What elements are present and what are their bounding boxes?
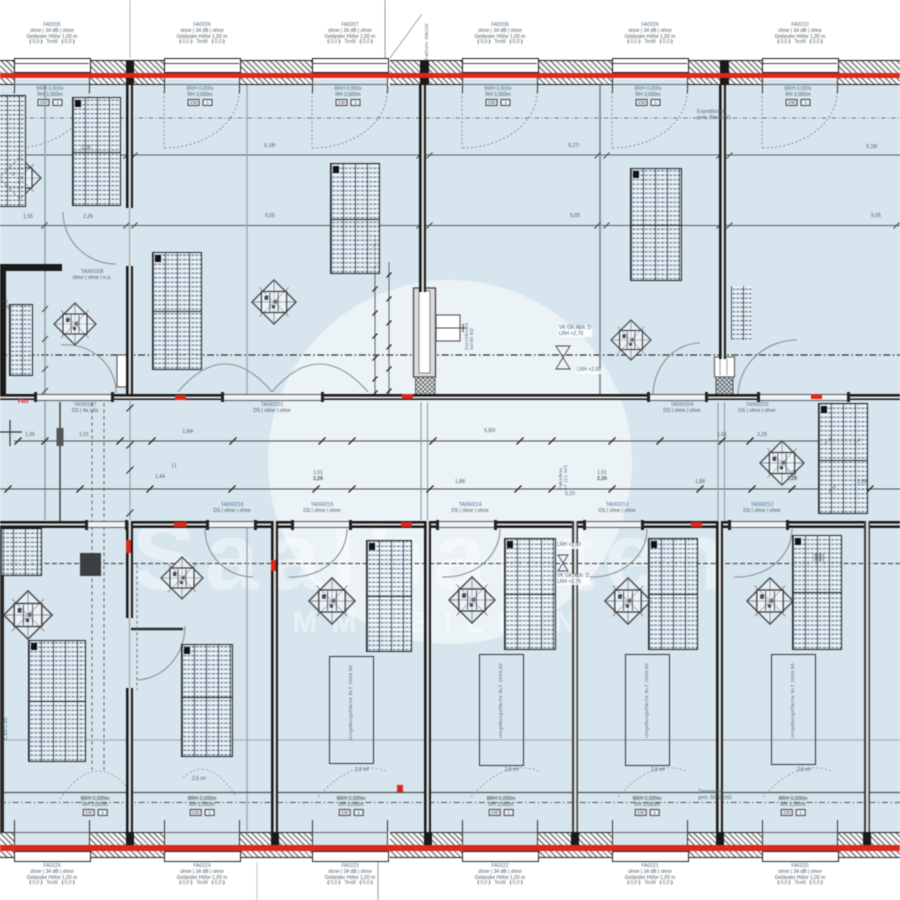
label box room4 (625, 654, 670, 766)
watermark circle (268, 280, 632, 644)
window label FA0208 (475, 23, 526, 46)
area label room5 (797, 768, 811, 774)
wall x130 bottom upper (126, 521, 133, 618)
dim label 5,05 room D (871, 214, 881, 220)
wall x867 bottom (864, 521, 871, 832)
balcony door arc room0 (60, 771, 130, 799)
window label FA0223 (325, 864, 376, 887)
data table left edge room A (0, 95, 26, 207)
top exterior wall hatch segments (0, 60, 14, 85)
door arc room A to corridor (61, 345, 116, 393)
door arc between room A and B (63, 212, 116, 264)
area label room4 (651, 768, 665, 774)
wall x720 bottom (716, 521, 723, 832)
bottom red stripe (0, 845, 900, 851)
data table room0 small upper (0, 528, 42, 576)
pair mark corridor (172, 464, 176, 470)
top window blue reveals (15, 79, 90, 85)
shaft at wall x420 (414, 288, 436, 396)
room text under FA0209 (635, 87, 662, 106)
red mark wall428 bottom vertical (397, 785, 403, 792)
red mark corridor lower wall right (691, 522, 702, 527)
diamond symbol room2 bottom (309, 578, 355, 624)
door tag TA060208 room A (73, 270, 112, 282)
door tag TA060207 (72, 403, 98, 415)
door niche stub room1 (131, 628, 183, 630)
diamond symbol room A lower (54, 303, 96, 345)
note bottom right of wall720 (698, 790, 732, 801)
diamond symbol room A upper (0, 157, 41, 199)
bottom window jamb lines (14, 820, 16, 845)
ceiling note room C lower (576, 368, 602, 374)
red mark wall275 vertical (271, 560, 276, 571)
bottom window blue reveals (15, 833, 90, 845)
data table room4 upper right (648, 538, 698, 650)
rotated note room C left (464, 286, 474, 350)
door tag TA060215 (303, 503, 340, 515)
ceiling note room C (558, 326, 592, 337)
wall box fixture room A left (117, 355, 130, 387)
dim label 5,18 room B (264, 144, 275, 150)
door arc room C to corridor (653, 343, 700, 396)
door arc bottom room1 (205, 529, 253, 577)
corridor left partition x60 (59, 402, 61, 521)
data table room C (630, 168, 682, 281)
diamond symbol room B (252, 280, 296, 324)
note top right (697, 110, 731, 121)
balcony text room0 (81, 797, 110, 816)
room text under FA0208 (485, 87, 512, 106)
dim line y155 (0, 154, 900, 156)
red label FB0 (18, 399, 28, 405)
diamond symbol corridor (760, 441, 804, 485)
door arc bottom room2 (289, 529, 347, 577)
dash-dot line upper rooms (0, 117, 900, 119)
label box room5 (771, 654, 816, 765)
balcony text room4 (633, 797, 662, 816)
top wall end marks (126, 61, 134, 85)
wall x575 bottom (572, 521, 579, 832)
hourglass symbol bottom corridor area (558, 555, 568, 571)
diamond symbol room3 bottom (449, 577, 495, 623)
red mark wall130 vertical (126, 540, 131, 553)
door tag TA060201 (253, 403, 290, 415)
paketbox rotated label (558, 432, 568, 490)
diamond symbol room1 bottom (161, 557, 203, 599)
label box room3 (479, 654, 524, 766)
top window boxes (14, 58, 91, 73)
interior wall room A horizontal (0, 264, 62, 271)
bottom rooms sill line y792 (0, 792, 900, 794)
window label FA0220 (775, 864, 826, 887)
area label room3 (505, 768, 519, 774)
callout leader top (390, 14, 422, 58)
wall x130 bottom lower (126, 688, 133, 832)
window door arc FA0209 (612, 92, 687, 148)
window door arc FA0210 (762, 92, 837, 148)
data table room A (72, 97, 121, 206)
corridor left plus mark (0, 420, 22, 446)
window label FA0207 (325, 23, 376, 46)
wall x130 bottom door line (129, 618, 130, 688)
area label room2 (355, 768, 369, 774)
label box room2 (329, 656, 374, 764)
window label FA0205 (27, 23, 78, 46)
dim label 2,06 (81, 146, 91, 152)
ARCS-DOORS (61, 212, 797, 680)
shaft at wall x720 (715, 357, 735, 396)
red mark corridor upper wall right (811, 394, 822, 399)
dim label 5,18 room D (866, 145, 877, 151)
corridor dim line y441 (14, 440, 862, 442)
top window inner frame lines (15, 63, 89, 64)
corridor dim line y489 (0, 488, 900, 490)
top red stripe (0, 73, 900, 78)
door arc room0 to room1 (137, 626, 185, 680)
balcony door arc room3 (471, 768, 539, 797)
corridor joint line x130 (129, 401, 131, 520)
partition x45 (44, 85, 46, 520)
bottom window boxes (14, 851, 91, 862)
boundary line above bottom windows (14, 832, 90, 833)
door arc bottom room3 (442, 529, 500, 577)
wall x428 bottom (424, 521, 431, 832)
corridor wall lower y524 (0, 521, 900, 528)
diamond symbol room5 bottom (747, 578, 793, 624)
dimension ticks column x375 (373, 243, 392, 396)
red mark corridor lower wall mid (401, 522, 412, 527)
boundary line under top windows (14, 84, 90, 85)
balcony text room3 (487, 797, 516, 816)
door arc bottom room4 (589, 529, 647, 577)
area label room1 (192, 777, 206, 783)
data table room B upper right (330, 163, 380, 274)
bottom rooms dash-dot y802 (0, 802, 900, 804)
bottom exterior wall hatch segments (0, 832, 14, 858)
window label FA0210 (775, 23, 826, 46)
room text under FA0205 (37, 87, 64, 106)
window label FA0209 (625, 23, 676, 46)
door jamb stubs corridor walls (34, 392, 37, 402)
dimension ticks corridor x130 (127, 405, 134, 517)
text column wall720 (731, 286, 752, 340)
wall x130 top lower part (126, 266, 133, 397)
balcony door arc room2 (318, 768, 386, 797)
door tag TA060203 (738, 403, 775, 415)
door arc room D to corridor (738, 340, 797, 396)
diamond symbol room0 bottom (4, 591, 52, 639)
corridor joint lines x424 x720 (420, 402, 422, 520)
ticks on left chain x45 (42, 306, 48, 394)
strip separator x130 (129, 0, 131, 58)
balcony text room1 (188, 797, 217, 816)
dim label 1,55 (23, 215, 33, 221)
data table room5 upper right (792, 535, 842, 650)
dimension ticks row y441 (15, 438, 862, 445)
door tag TA060216 (213, 503, 250, 515)
double door room B right leaf (272, 364, 368, 392)
ticks on room dim lines (42, 153, 900, 229)
partition x247 top (246, 85, 248, 394)
watermark word IMMOBILIEN (270, 606, 590, 640)
data table room A2 small (9, 304, 33, 376)
window label FA0221 (625, 864, 676, 887)
data table room B lower left (152, 252, 202, 370)
dim label 2,26 left (83, 215, 93, 221)
data table corridor right (818, 403, 868, 514)
corridor dim row2 labels (155, 475, 165, 481)
wall x420 top (419, 85, 426, 292)
red mark corridor lower wall left (174, 522, 187, 527)
window door arc FA0208 (462, 92, 537, 148)
grid axis line top (384, 0, 386, 58)
red mark corridor upper wall mid (402, 394, 413, 399)
window label FA0225 (27, 864, 78, 887)
vertical dim chain x389 (388, 262, 390, 396)
room text under FA0210 (785, 87, 812, 106)
dashed line bottom rooms y563 (0, 563, 900, 565)
rotated callout top (424, 6, 429, 60)
left exterior wall bottom (0, 528, 4, 832)
door tag TA060212 (743, 503, 780, 515)
left exterior wall fragment (0, 264, 6, 400)
data table room0 bottom (28, 640, 86, 762)
diamond symbol room4 bottom (605, 578, 651, 624)
watermark big word (132, 502, 892, 612)
strip separator x257 bottom (256, 862, 258, 900)
top window jamb lines (14, 78, 16, 93)
door tag TA060214 (451, 503, 488, 515)
dim label 5,27 room C (568, 144, 579, 150)
dark cabinet room0 (80, 553, 101, 576)
window label FA0222 (475, 864, 526, 887)
window door arc FA0206 (164, 92, 239, 148)
dim line y225 (0, 225, 900, 227)
balcony text room5 (779, 797, 808, 816)
room text under FA0206 (187, 87, 214, 106)
bottom wall end marks (126, 832, 134, 845)
hourglass symbol room C (556, 346, 570, 369)
ceiling note bottom mid (556, 574, 590, 585)
door tag TA060213 (598, 503, 635, 515)
window door arc FA0207 (312, 92, 387, 148)
dimension ticks row y489 (5, 486, 874, 493)
diamond symbol room C (611, 320, 651, 360)
vertical dim chain x375 (374, 235, 376, 396)
window door arc FA0205 (14, 92, 837, 148)
ceiling note bottom upper (556, 543, 582, 549)
data table room3 upper right (504, 538, 556, 650)
small dark block bottom right partition (813, 553, 824, 561)
wall x275 bottom (271, 521, 278, 832)
window label FA0224 (177, 864, 228, 887)
double door room B left leaf (178, 364, 272, 392)
bottom rooms mid line y740 (0, 739, 900, 741)
red mark corridor upper wall left (175, 395, 186, 400)
balcony door arc room5 (763, 768, 831, 797)
wall x130 top upper part (126, 85, 133, 208)
dash-dot line mid rooms y355 (0, 354, 900, 356)
grid axis line bottom (377, 862, 379, 900)
corridor dim row1 labels (25, 433, 35, 439)
corridor wall upper y396 (0, 394, 900, 401)
balcony text room2 (337, 797, 366, 816)
rotated note room0 (3, 688, 8, 740)
data table room2 upper right (366, 540, 412, 652)
balcony door arc room4 (618, 768, 686, 797)
movable wall dashed x104 (103, 403, 105, 770)
axis tag left mid (2, 300, 10, 311)
movable wall dashed x92 (91, 403, 93, 770)
door arc bottom room5 (734, 529, 792, 577)
dash line inner room1 (136, 565, 138, 690)
window label FA0206 (177, 23, 228, 46)
partition x247 bottom (246, 528, 248, 831)
door tag TA060204 (663, 403, 700, 415)
wall x720 top (719, 85, 726, 359)
dim label 5,05 room B (265, 214, 275, 220)
partition x600 (599, 85, 601, 394)
wall x130 door jamb line (129, 208, 130, 266)
room text under FA0207 (335, 87, 362, 106)
dim label 5,05 room C (570, 214, 580, 220)
wall box fixture room C (436, 315, 466, 341)
data table room1 bottom (181, 644, 233, 757)
balcony door arc room1 (183, 769, 235, 795)
